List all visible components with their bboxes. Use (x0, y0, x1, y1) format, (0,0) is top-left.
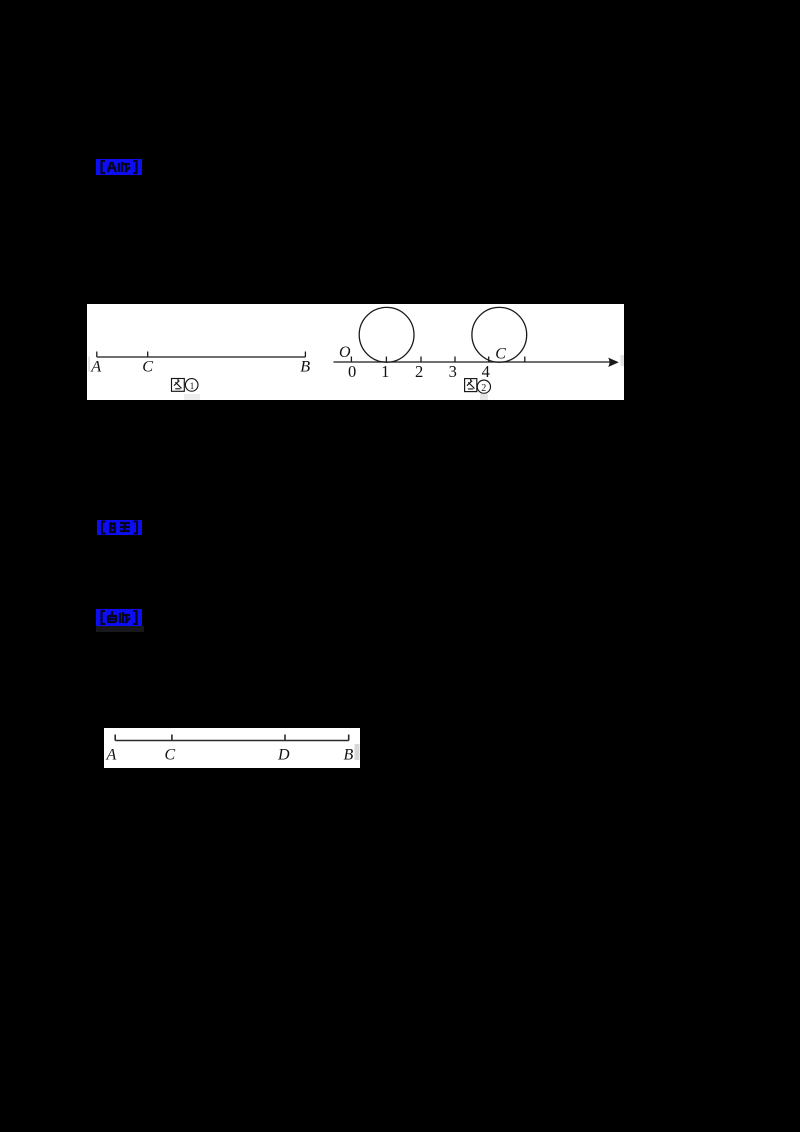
dark shadow under label 3 (96, 626, 144, 632)
tick B (348, 735, 350, 741)
tick 0 (350, 357, 352, 363)
blue highlighted label 3 (96, 609, 142, 626)
svg-text:O: O (339, 344, 351, 361)
faint bar left of A (88, 357, 90, 372)
svg-text:2: 2 (481, 383, 486, 394)
svg-text:2: 2 (415, 362, 423, 381)
circle tangent at 1 (359, 307, 414, 362)
svg-text:D: D (277, 747, 290, 764)
tick 4 (488, 357, 490, 363)
arrowhead (608, 358, 619, 367)
segment AB line (97, 356, 306, 358)
gray cursor bar (355, 744, 360, 760)
caption 图2 (465, 379, 491, 394)
svg-text:C: C (142, 358, 153, 376)
segment AB line (115, 740, 349, 742)
tick C (147, 352, 149, 358)
blue highlighted label 2 (97, 520, 142, 535)
svg-text:C: C (495, 346, 506, 363)
faint smudge under caption 1 (184, 394, 200, 400)
tick C (171, 735, 173, 741)
svg-text:4: 4 (482, 362, 490, 381)
svg-text:C: C (165, 747, 176, 764)
figure box 2 (segment A C D B) (104, 728, 360, 768)
tick B (304, 352, 306, 358)
faint smudge under caption 2 (480, 394, 488, 400)
figure box 1 (图1 and 图2) (87, 304, 624, 400)
blue highlighted label 1 (96, 159, 142, 175)
svg-text:3: 3 (449, 362, 457, 381)
svg-text:1: 1 (190, 382, 195, 392)
svg-text:A: A (90, 358, 101, 376)
caption 图1 (172, 379, 199, 392)
svg-text:A: A (106, 747, 117, 764)
tick 2 (420, 357, 422, 363)
faint bar right of arrow (621, 355, 625, 366)
tick D (284, 735, 286, 741)
svg-text:B: B (344, 747, 354, 764)
svg-text:B: B (300, 358, 310, 376)
tick 5 unlabeled (524, 357, 526, 363)
tick A (96, 352, 98, 358)
circle tangent near 4 (point C) (472, 307, 527, 362)
tick 1 (385, 357, 387, 363)
number line (334, 361, 617, 363)
tick A (114, 735, 116, 741)
tick 3 (454, 357, 456, 363)
svg-text:0: 0 (348, 362, 356, 381)
svg-text:1: 1 (381, 362, 389, 381)
